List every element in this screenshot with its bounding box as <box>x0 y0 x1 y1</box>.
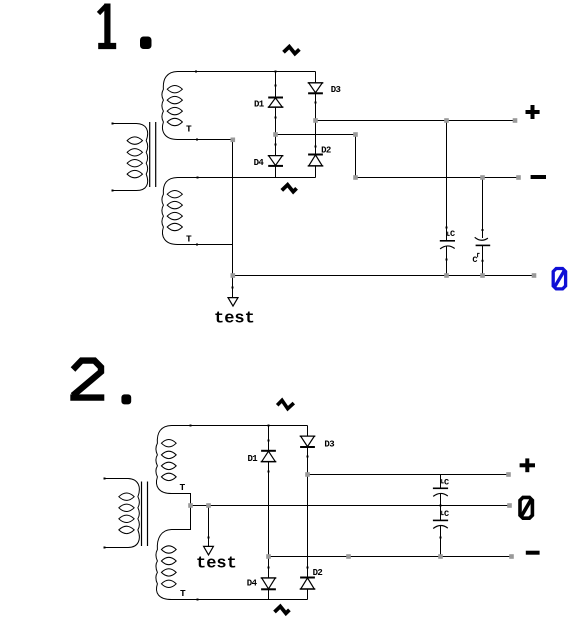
transformer T1 secondary winding A (top), label T <box>162 72 183 140</box>
svg-text:D4: D4 <box>247 578 258 588</box>
capacitor C (plus to zero) circuit 2 <box>433 475 448 506</box>
wire: bridge right branch circuit 1 <box>315 72 317 178</box>
diode D4 circuit 2 <box>261 578 277 589</box>
transformer T1 core <box>150 122 156 187</box>
node ~ AC top circuit 2 <box>277 400 294 408</box>
node - output terminal circuit 2 <box>526 551 540 555</box>
transformer T1 primary winding <box>112 123 148 192</box>
svg-text:test: test <box>196 554 237 573</box>
transformer T1 secondary winding B (bottom), label T <box>162 178 183 245</box>
diode D2 <box>308 155 324 166</box>
node ~ AC top circuit 1 <box>284 47 300 54</box>
wire: plus output circuit 1 <box>316 120 516 122</box>
diode D1 circuit 2 <box>261 451 277 462</box>
svg-text:C: C <box>444 509 449 519</box>
svg-text:T: T <box>180 588 186 599</box>
svg-text:D3: D3 <box>324 439 334 449</box>
test point probe arrow circuit 2 <box>204 506 214 555</box>
svg-text:D1: D1 <box>254 99 265 109</box>
label 1. (schematic number one) <box>98 4 151 50</box>
capacitor C (zero to minus) circuit 2 <box>433 506 448 557</box>
capacitor C (plus to zero) circuit 1 <box>440 121 455 276</box>
label 2. (schematic number two) <box>70 361 131 405</box>
svg-text:test: test <box>214 310 255 329</box>
wire: minus output circuit 2 <box>269 556 512 558</box>
wire: top AC rail circuit 2 <box>172 425 308 427</box>
node + output terminal circuit 2 <box>520 458 535 472</box>
diode D2 circuit 2 <box>300 578 316 590</box>
svg-text:C: C <box>450 229 455 239</box>
wire: bottom AC rail circuit 2 <box>172 599 308 601</box>
node 0 output terminal circuit 1 (blue slashed zero) <box>553 269 565 289</box>
svg-text:C: C <box>472 255 477 265</box>
transformer T2 secondary winding A (top), label T <box>156 426 176 494</box>
wire: secondary A bottom lead to centre tap circuit 1 <box>178 139 233 141</box>
diode D4 <box>268 156 284 166</box>
svg-text:T: T <box>180 482 186 493</box>
wire: bridge left branch circuit 2 <box>268 426 270 600</box>
diode D3 circuit 2 <box>300 436 316 447</box>
node + output terminal circuit 1 <box>526 105 540 119</box>
junction squares circuit 2 <box>188 472 514 559</box>
svg-text:D4: D4 <box>254 158 265 168</box>
svg-text:D2: D2 <box>321 146 331 156</box>
diode D3 <box>308 83 324 93</box>
node 0 output terminal circuit 2 (black slashed zero) <box>520 497 532 518</box>
wire: zero rail circuit 1 <box>233 275 535 277</box>
svg-text:C: C <box>444 477 449 487</box>
wire: centre tap link circuit 2 <box>172 494 191 530</box>
wire: top AC rail circuit 1 <box>178 71 316 73</box>
svg-text:D3: D3 <box>331 85 341 95</box>
node ~ AC bottom circuit 1 <box>282 185 297 192</box>
junction squares circuit 1 <box>231 118 537 278</box>
capacitor C (minus to zero) circuit 1 <box>475 178 491 276</box>
transformer T2 core <box>142 482 148 547</box>
wire: bottom AC rail circuit 1 <box>178 177 316 179</box>
svg-text:T: T <box>186 234 192 245</box>
svg-text:D2: D2 <box>313 568 323 578</box>
node ~ AC bottom circuit 2 <box>275 606 290 613</box>
transformer T2 secondary winding B (bottom), label T <box>156 530 176 600</box>
svg-text:T: T <box>186 124 192 135</box>
node - output terminal circuit 1 <box>531 175 546 179</box>
wire: bridge right branch circuit 2 <box>307 426 309 600</box>
wire: zero rail circuit 2 <box>191 505 510 507</box>
wire: plus output circuit 2 <box>308 474 509 476</box>
test point probe arrow circuit 1 <box>228 276 238 307</box>
wire: minus jog from bridge circuit 1 <box>276 135 519 178</box>
svg-text:D1: D1 <box>248 454 259 464</box>
transformer T2 primary winding <box>104 478 140 549</box>
diode D1 <box>268 98 284 108</box>
wire: secondary B bottom lead circuit 1 <box>178 244 233 246</box>
wire: bridge left branch circuit 1 <box>275 72 277 178</box>
wire: centre tap vertical circuit 1 <box>232 140 234 276</box>
